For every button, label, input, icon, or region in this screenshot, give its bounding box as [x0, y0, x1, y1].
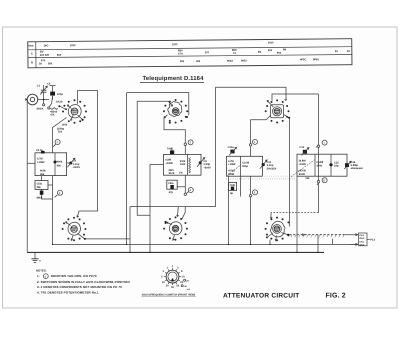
- svg-text:ATTENUATOR CIRCUIT: ATTENUATOR CIRCUIT: [223, 293, 300, 300]
- label PL3: [367, 239, 370, 241]
- svg-text:DIO: DIO: [44, 44, 49, 47]
- capacitor C16 trimmer: [345, 163, 349, 167]
- switch SA1b left contact lead: [164, 115, 167, 118]
- svg-text:C12: C12: [299, 146, 304, 149]
- switch SA1d lower lead: [173, 235, 175, 240]
- divider network box R1 R2: [35, 153, 67, 176]
- wire divider output down: [184, 175, 186, 193]
- switch wafer SA1a: [68, 105, 81, 118]
- earth bus upper: [53, 243, 358, 245]
- wire gnd bus up to SA2b: [269, 240, 271, 245]
- switch SA2b bottom lead: [275, 235, 277, 240]
- switch wafer SA1b: [168, 102, 182, 117]
- wire riser right: [318, 94, 320, 213]
- svg-text:C2: C2: [47, 82, 51, 85]
- svg-text:PL3: PL3: [370, 239, 375, 242]
- open terminal 7: [317, 145, 319, 147]
- wire divider left down: [228, 176, 230, 244]
- wire riser C to wiper of SA1b: [137, 101, 150, 215]
- tag 1: [55, 140, 60, 145]
- wire divider output down: [250, 176, 252, 194]
- svg-text:+500V: +500V: [73, 166, 81, 169]
- svg-text:207: 207: [205, 51, 210, 54]
- switch wafer SA2b: [270, 221, 285, 237]
- svg-text:+1/2W: +1/2W: [228, 163, 236, 166]
- svg-text:DENOTES TAG NOS. ON PC73: DENOTES TAG NOS. ON PC73: [51, 274, 97, 278]
- divider network box R8 C14 C15: [297, 154, 347, 176]
- svg-text:1913: 1913: [172, 43, 178, 46]
- open terminal 5: [249, 144, 251, 146]
- input socket SKA: [27, 94, 38, 105]
- capacitor C15 33p: [329, 163, 332, 166]
- switch SA1d contact studs: [163, 216, 188, 240]
- tag 4: [188, 188, 193, 193]
- svg-text:SA1b: SA1b: [56, 101, 63, 104]
- switch SA1c contact studs: [62, 217, 87, 241]
- switch wafer SA2a: [271, 105, 284, 118]
- switch position ticks: [164, 268, 181, 285]
- knob pointer: [171, 278, 174, 282]
- wire socket to attenuator input node: [38, 99, 49, 101]
- switch SA2a wiper arm: [267, 100, 273, 107]
- tag 2: [58, 190, 63, 195]
- svg-text:900k: 900k: [57, 161, 63, 164]
- svg-text:3. # DENOTES COMPONENTS NO: 3. # DENOTES COMPONENTS NOT MOUNTED ON P…: [37, 285, 122, 289]
- wire SA1a to divider: [53, 118, 67, 153]
- wire across to wafer SA1b: [127, 93, 189, 116]
- component index table: [28, 39, 352, 68]
- earth bus lower: [27, 251, 324, 253]
- svg-text:T22: T22: [58, 131, 63, 134]
- wire terminal to C7: [184, 145, 186, 154]
- svg-text:904A: 904A: [227, 60, 233, 63]
- junction dots: [52, 244, 319, 253]
- svg-text:9002: 9002: [241, 59, 247, 62]
- trimmer capacitor C1: [43, 92, 45, 99]
- trimmer capacitor C4: [67, 162, 71, 164]
- capacitor C6: [40, 191, 44, 195]
- switch SA1a wiper arms: [67, 105, 71, 109]
- svg-text:45k: 45k: [37, 186, 42, 189]
- svg-text:attenuator: attenuator: [351, 167, 363, 170]
- trimmer capacitor C8: [199, 161, 202, 164]
- switch SA1c wiper arm: [78, 233, 85, 238]
- switch SA2b left contact: [266, 233, 273, 238]
- svg-text:300k: 300k: [316, 164, 322, 167]
- wire box1 to C5 stub: [42, 176, 53, 199]
- tag 7: [322, 140, 327, 145]
- node terminal SKA pin: [43, 100, 45, 104]
- svg-text:804: 804: [57, 54, 62, 57]
- gang line dashed diagonal 2: [291, 159, 316, 177]
- svg-text:C5/a: C5/a: [37, 182, 43, 185]
- open terminal: [184, 143, 186, 145]
- svg-text:9P62: 9P62: [313, 58, 320, 61]
- svg-text:800R: 800R: [299, 173, 305, 176]
- tag 6: [253, 190, 258, 195]
- wire C2 drop to wiper terminal: [49, 96, 52, 107]
- svg-text:C1: C1: [37, 85, 41, 88]
- screen to gnd: [317, 235, 319, 253]
- switch SA1d left wiper: [166, 222, 171, 225]
- wire top contact up: [272, 94, 319, 101]
- capacitor C9/5: [229, 182, 237, 190]
- svg-text:904: 904: [277, 52, 282, 55]
- svg-text:MOD: MOD: [28, 44, 34, 47]
- switch SA2b contact studs: [265, 217, 290, 242]
- switch SA2b wiper to screened lead: [281, 233, 287, 235]
- ground symbol: [31, 259, 38, 263]
- screened output lead dashed: [289, 234, 344, 236]
- svg-text:+1/4W: +1/4W: [298, 163, 306, 166]
- svg-text:4. TR1 DENOTES POTENTIOMETER: 4. TR1 DENOTES POTENTIOMETER No.1: [37, 291, 99, 295]
- socket ground lug: [25, 98, 27, 101]
- svg-text:4P5C: 4P5C: [300, 58, 307, 61]
- svg-text:903: 903: [180, 60, 185, 63]
- wire SA1c wiper to mid bus: [86, 238, 130, 240]
- wire feed loop to wafer SA2a: [216, 87, 287, 206]
- wire input earth line: [26, 100, 28, 253]
- wire SA1b output to terminal 3: [164, 118, 185, 143]
- tag 8: [322, 178, 327, 183]
- wire SA1a top contact up and over: [78, 91, 98, 211]
- open terminal 6: [249, 195, 251, 197]
- svg-text:100k: 100k: [180, 163, 186, 166]
- svg-text:SK2A: SK2A: [37, 108, 44, 111]
- arrow into connector CH1: [344, 234, 358, 236]
- svg-text:900p: 900p: [242, 165, 248, 168]
- svg-text:C9/a: C9/a: [168, 182, 174, 185]
- wire bus riser: [129, 207, 131, 253]
- svg-text:470p: 470p: [57, 93, 63, 96]
- svg-text:1910: 1910: [70, 44, 76, 47]
- wire drop to SA1d: [177, 207, 179, 217]
- switch wafer SA1c: [68, 222, 81, 235]
- svg-text:+1/2W: +1/2W: [37, 161, 45, 164]
- table row line 2: [28, 54, 352, 57]
- switch SA1c left contact: [65, 222, 70, 226]
- wire riser to SA1b feed: [126, 93, 128, 245]
- wire divider tail: [240, 176, 242, 196]
- svg-text:916: 916: [268, 49, 273, 52]
- svg-text:800R: 800R: [228, 173, 234, 176]
- table row line 1: [28, 47, 352, 50]
- arrow into connector GND: [350, 243, 358, 245]
- switch SA2a left contact to divider: [251, 115, 271, 143]
- switch SA2a right contact: [284, 114, 289, 117]
- wiper lead to switch SA1a: [50, 108, 58, 110]
- title underline: [140, 82, 204, 84]
- switch SA1a contact studs: [62, 99, 87, 124]
- switch position values: [161, 265, 185, 289]
- gang line dashed diagonal: [228, 165, 242, 176]
- svg-text:C7A: C7A: [178, 53, 183, 56]
- svg-text:2. SWITCHES SHOWN IN FULLY: 2. SWITCHES SHOWN IN FULLY ANTI-CLOCKWIS…: [37, 280, 130, 284]
- svg-text:90k: 90k: [57, 164, 62, 167]
- wire divider down: [52, 176, 54, 245]
- svg-text:C9/5: C9/5: [230, 184, 236, 187]
- open terminal 8: [317, 180, 319, 182]
- wire box left down to gnd bus: [296, 176, 298, 252]
- svg-text:FIG. 2: FIG. 2: [326, 293, 346, 300]
- svg-text:GN.2: GN.2: [359, 237, 365, 240]
- switch SA1a lower contact lead: [71, 115, 74, 120]
- capacitor C2: [52, 96, 54, 100]
- svg-text:NOTES:: NOTES:: [36, 269, 47, 273]
- svg-text:47p: 47p: [169, 191, 174, 194]
- svg-text:1.: 1.: [37, 274, 40, 278]
- switch SA1c bottom lead: [71, 235, 73, 240]
- wire terminal into divider box: [250, 146, 252, 156]
- switch SA front view knob: [166, 270, 179, 283]
- svg-text:500: 500: [48, 62, 53, 65]
- svg-text:404: 404: [196, 60, 201, 63]
- tag 3: [188, 140, 193, 145]
- interstage bus: [130, 206, 216, 208]
- svg-text:SA1/4 (FREQUENCY) SWITCH (FR: SA1/4 (FREQUENCY) SWITCH (FRONT VIEW): [142, 293, 196, 296]
- svg-text:4p: 4p: [230, 192, 233, 195]
- svg-text:45k: 45k: [40, 173, 45, 176]
- wiper terminal: [48, 107, 50, 109]
- trimmer capacitor C11: [262, 163, 265, 166]
- wire riser D to divider: [150, 164, 164, 252]
- svg-text:33p: 33p: [334, 165, 339, 168]
- svg-text:C10a: C10a: [228, 146, 235, 149]
- switch SA2a contact studs: [265, 99, 290, 123]
- divider network box R6 R7: [227, 156, 263, 176]
- connector PL3: [359, 233, 367, 246]
- svg-text:910k: 910k: [169, 172, 175, 175]
- wire C5 to divider: [48, 184, 53, 186]
- wire terminal 6 to gnd bus: [250, 197, 252, 245]
- table header column line: [35, 42, 37, 68]
- svg-text:R: R: [31, 61, 33, 64]
- svg-text:680k: 680k: [37, 196, 43, 199]
- capacitor on divider: [54, 161, 57, 164]
- svg-text:GN.2: GN.2: [359, 244, 365, 247]
- wire stub screened lead gnd: [332, 239, 334, 245]
- svg-text:12k: 12k: [305, 177, 310, 180]
- wire drop 2 to SA1d: [182, 207, 185, 220]
- switch SA1b contact studs: [163, 99, 188, 124]
- ground stub: [34, 252, 36, 258]
- svg-text:47k: 47k: [50, 113, 55, 116]
- cal marks: [184, 279, 186, 281]
- wire earth to divider box: [27, 162, 35, 164]
- wire stub wafer SA2b right feed: [289, 119, 291, 227]
- svg-text:1910: 1910: [268, 41, 274, 44]
- svg-text:C: C: [31, 52, 33, 55]
- svg-text:+500V: +500V: [203, 166, 211, 169]
- svg-text:100k: 100k: [62, 124, 68, 127]
- open terminal lower: [184, 193, 186, 195]
- capacitor C5 box: [35, 181, 48, 190]
- capacitor C9 47p: [167, 180, 177, 189]
- svg-text:CH.1: CH.1: [359, 234, 365, 237]
- switch wafer SA1d: [169, 222, 182, 235]
- tag 5: [253, 139, 258, 144]
- junction node: [43, 99, 45, 101]
- svg-text:Telequipment D.1164: Telequipment D.1164: [143, 75, 205, 82]
- arrow into SA1c: [77, 211, 79, 217]
- svg-text:50V/25V: 50V/25V: [267, 167, 277, 170]
- svg-text:+1/2W: +1/2W: [165, 162, 173, 165]
- svg-text:400 500: 400 500: [40, 54, 50, 57]
- divider network box R4 R5: [164, 154, 202, 175]
- svg-text:CH.1: CH.1: [359, 240, 365, 243]
